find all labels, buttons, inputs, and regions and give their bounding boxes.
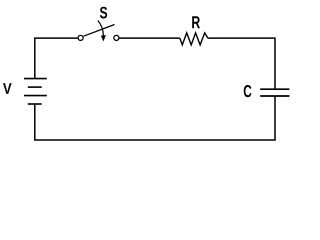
label C — [244, 85, 252, 97]
battery long plate 1 — [24, 78, 47, 80]
battery V — [3, 79, 47, 104]
capacitor C — [244, 85, 290, 97]
switch left terminal circle — [78, 35, 83, 40]
resistor R — [180, 16, 208, 45]
switch S — [78, 7, 119, 42]
label S — [100, 7, 107, 19]
capacitor bottom plate — [260, 95, 289, 97]
switch closing-direction arrow — [98, 21, 104, 36]
battery long plate 2 — [24, 95, 47, 97]
wire from battery positive plate up to top-left corner and right to switch left terminal — [35, 38, 78, 79]
label V — [3, 83, 12, 94]
switch blade — [84, 25, 115, 37]
capacitor top plate — [260, 88, 289, 90]
battery short plate 2 — [28, 103, 42, 105]
battery short plate 1 — [28, 86, 42, 88]
wire from resistor to top-right corner and down to capacitor top plate — [208, 38, 275, 89]
wire from switch right terminal to resistor — [119, 37, 179, 39]
wire from capacitor bottom plate down, along bottom, and up to battery negative plate — [35, 96, 275, 140]
switch right terminal circle — [114, 35, 119, 40]
label R — [192, 16, 200, 28]
